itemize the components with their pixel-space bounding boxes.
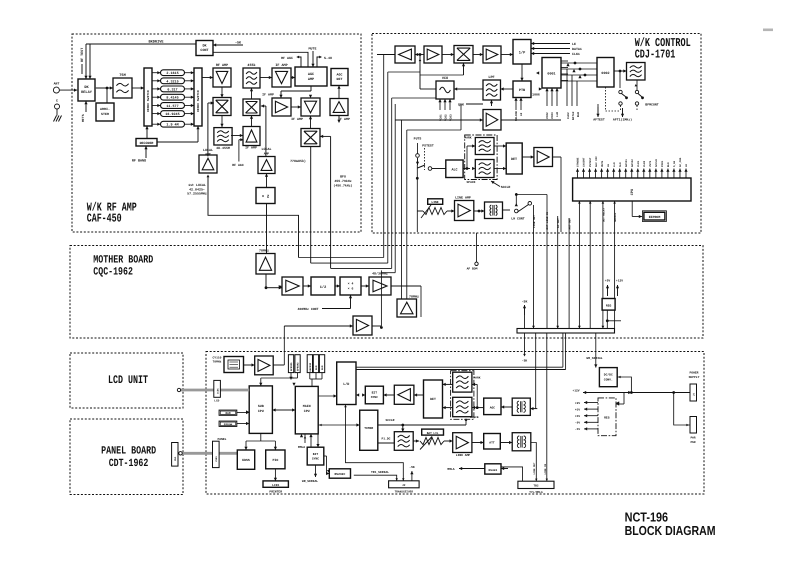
svg-text:PNR: PNR — [690, 441, 695, 444]
svg-text:LINE AMP: LINE AMP — [455, 196, 471, 200]
svg-text:DET: DET — [511, 157, 517, 162]
svg-text:S-40: S-40 — [324, 56, 332, 60]
svg-text:CAF-450: CAF-450 — [87, 212, 122, 226]
svg-text:E: E — [56, 100, 58, 103]
svg-text:455.79kHz: 455.79kHz — [334, 179, 351, 183]
svg-text:BIT: BIT — [372, 392, 378, 395]
svg-text:BLD: BLD — [667, 162, 670, 167]
svg-text:J101: J101 — [215, 456, 218, 462]
svg-text:BFMCONT: BFMCONT — [645, 103, 658, 107]
svg-text:MOTHER BOARD: MOTHER BOARD — [93, 255, 153, 267]
svg-text:MAIN: MAIN — [303, 404, 311, 408]
svg-text:1006: 1006 — [532, 93, 540, 97]
svg-text:RELAY: RELAY — [81, 90, 93, 95]
svg-text:VCO3: VCO3 — [551, 112, 554, 119]
svg-text:EPROM: EPROM — [224, 423, 233, 426]
svg-text:AGC: AGC — [337, 73, 343, 77]
svg-text:CLK2: CLK2 — [567, 112, 570, 119]
svg-text:AGC: AGC — [490, 407, 496, 410]
svg-text:AFTEST: AFTEST — [593, 118, 605, 122]
svg-text:CLK1: CLK1 — [637, 160, 640, 167]
svg-text:DET: DET — [430, 397, 436, 401]
svg-text:TRANSCEIVER: TRANSCEIVER — [395, 491, 414, 494]
svg-text:70MHz: 70MHz — [409, 295, 419, 299]
svg-text:TB2: TB2 — [533, 485, 538, 488]
svg-text:ATT: ATT — [489, 442, 495, 445]
svg-text:BLD: BLD — [577, 112, 580, 117]
svg-text:LE: LE — [607, 163, 610, 167]
svg-text:DATA1: DATA1 — [572, 47, 582, 51]
svg-text:EEPROM: EEPROM — [649, 215, 661, 219]
svg-text:+5V: +5V — [605, 280, 611, 283]
svg-text:DATA1: DATA1 — [625, 159, 628, 167]
svg-text:4.3215: 4.3215 — [166, 79, 178, 84]
svg-text:KDSS: KDSS — [242, 458, 250, 462]
svg-text:LPF: LPF — [488, 75, 494, 80]
svg-text:48/36MHz: 48/36MHz — [372, 272, 388, 276]
svg-text:75M: 75M — [119, 73, 125, 78]
svg-text:-5K: -5K — [409, 466, 415, 469]
svg-text:CPU: CPU — [304, 409, 310, 413]
svg-text:LWCONT: LWCONT — [583, 157, 586, 167]
svg-text:DATA2: DATA2 — [572, 111, 575, 120]
svg-text:ANT: ANT — [54, 82, 60, 86]
svg-text:+5V: +5V — [575, 408, 580, 411]
svg-text:AF BOM: AF BOM — [467, 268, 478, 271]
svg-text:-9V: -9V — [575, 422, 580, 425]
svg-text:REG: REG — [606, 305, 612, 308]
svg-text:48.455M: 48.455M — [216, 146, 230, 150]
svg-text:-5K: -5K — [235, 41, 242, 46]
svg-text:POWER: POWER — [689, 372, 698, 375]
svg-text:CDT-1962: CDT-1962 — [109, 458, 149, 470]
svg-text:RS422: RS422 — [489, 469, 498, 472]
svg-text:AGC: AGC — [308, 72, 314, 77]
svg-text:AF_CHG: AF_CHG — [679, 157, 682, 167]
svg-text:RF TEST: RF TEST — [80, 48, 85, 62]
svg-text:TYL/MMLA: TYL/MMLA — [529, 490, 543, 494]
svg-text:LCD UNIT: LCD UNIT — [108, 374, 148, 387]
svg-text:LINE AMP: LINE AMP — [456, 454, 471, 457]
svg-text:ALC: ALC — [451, 168, 457, 173]
svg-text:LCD1: LCD1 — [272, 484, 279, 487]
svg-text:SLD: SLD — [619, 162, 622, 167]
svg-text:PUTS: PUTS — [414, 137, 422, 141]
svg-text:LINE: LINE — [431, 201, 438, 204]
svg-text:LCD: LCD — [214, 400, 219, 403]
svg-text:CDJ-1701: CDJ-1701 — [635, 47, 676, 61]
svg-text:SCCLR: SCCLR — [655, 159, 658, 167]
svg-text:EEPROM: EEPROM — [309, 362, 312, 371]
svg-text:PSTEST: PSTEST — [589, 157, 592, 167]
svg-text:WR_SERIAL: WR_SERIAL — [586, 357, 602, 360]
svg-text:RAM: RAM — [321, 365, 324, 370]
svg-text:0001: 0001 — [547, 72, 555, 77]
svg-text:DECODER: DECODER — [140, 141, 154, 145]
svg-text:BAT LVL: BAT LVL — [427, 432, 439, 435]
svg-text:LOCAL: LOCAL — [262, 147, 272, 151]
svg-text:LH CONT: LH CONT — [511, 217, 524, 221]
svg-text:RF BAND: RF BAND — [132, 159, 146, 164]
svg-text:UNLOCK: UNLOCK — [515, 111, 518, 121]
svg-text:MARK: MARK — [464, 137, 471, 140]
svg-text:DATA2: DATA2 — [631, 159, 634, 167]
svg-text:CQC-1962: CQC-1962 — [93, 266, 133, 278]
svg-text:CONT: CONT — [200, 48, 208, 53]
svg-text:VCO: VCO — [442, 76, 448, 81]
svg-text:L/D: L/D — [343, 382, 349, 387]
svg-text:+9V: +9V — [575, 402, 580, 405]
svg-text:SCCLR: SCCLR — [385, 419, 394, 422]
svg-text:BFO: BFO — [340, 175, 346, 179]
svg-text:AGC OFF: AGC OFF — [595, 156, 598, 167]
svg-text:VSTS: VSTS — [649, 160, 652, 167]
svg-text:455k: 455k — [247, 63, 255, 68]
svg-text:LINE OUT: LINE OUT — [533, 215, 536, 228]
svg-text:× 6: × 6 — [348, 287, 354, 291]
svg-text:LE: LE — [572, 42, 576, 46]
svg-text:RF AGC: RF AGC — [232, 163, 244, 167]
svg-text:LE: LE — [520, 112, 523, 116]
svg-text:6.317: 6.317 — [167, 87, 177, 92]
svg-text:+12V: +12V — [572, 389, 579, 392]
svg-text:(456.7kHz): (456.7kHz) — [333, 184, 352, 188]
svg-text:SUPPLY: SUPPLY — [689, 376, 700, 379]
svg-text:MFTS: MFTS — [81, 114, 85, 122]
svg-text:LCDC: LCDC — [216, 388, 219, 394]
svg-text:1/P: 1/P — [519, 51, 525, 56]
svg-text:8.4145: 8.4145 — [166, 96, 178, 101]
svg-text:LLD: LLD — [556, 112, 559, 117]
svg-text:LK: LK — [685, 163, 688, 167]
svg-text:+5V: +5V — [575, 415, 580, 418]
svg-text:PANEL: PANEL — [217, 438, 226, 441]
svg-text:57.2555MHz: 57.2555MHz — [187, 192, 207, 196]
svg-text:P201: P201 — [661, 160, 664, 167]
svg-text:CLK1: CLK1 — [572, 52, 580, 56]
svg-text:J2: J2 — [402, 484, 406, 487]
svg-text:400MHz CONT: 400MHz CONT — [297, 307, 318, 311]
svg-text:ARRI-: ARRI- — [100, 107, 110, 111]
svg-text:RS232C: RS232C — [334, 473, 345, 476]
svg-text:MUTE: MUTE — [601, 160, 604, 167]
svg-text:770&85k): 770&85k) — [290, 159, 306, 163]
svg-text:S_AG: S_AG — [673, 160, 676, 167]
svg-text:LLD: LLD — [613, 162, 616, 167]
svg-text:TR1_SERIAL: TR1_SERIAL — [371, 471, 389, 474]
svg-text:1.9 4M: 1.9 4M — [166, 123, 178, 128]
svg-text:DIODE SWITCH: DIODE SWITCH — [147, 90, 150, 112]
svg-text:RF AGC: RF AGC — [281, 56, 293, 60]
svg-text:PIO: PIO — [273, 458, 279, 462]
svg-text:AFT1(1MHz): AFT1(1MHz) — [613, 118, 632, 122]
svg-text:BLOCK DIAGRAM: BLOCK DIAGRAM — [625, 523, 716, 538]
svg-text:CN1: CN1 — [174, 456, 177, 461]
svg-text:TIMER: TIMER — [364, 427, 373, 430]
svg-text:SCCLR: SCCLR — [501, 185, 511, 189]
svg-text:SYNC: SYNC — [371, 396, 378, 399]
svg-text:EXT LINE IN: EXT LINE IN — [546, 211, 549, 229]
svg-text:CLK2: CLK2 — [643, 160, 646, 167]
svg-text:IF AMP: IF AMP — [291, 117, 303, 121]
svg-text:BKDRIVE: BKDRIVE — [148, 40, 164, 45]
svg-text:PRINTER: PRINTER — [269, 491, 282, 494]
svg-text:LINE OUT: LINE OUT — [533, 462, 536, 475]
svg-text:70MHz: 70MHz — [212, 361, 221, 364]
svg-text:IF AMP: IF AMP — [245, 146, 257, 150]
svg-text:11.577: 11.577 — [166, 104, 178, 109]
svg-text:RAM: RAM — [315, 365, 318, 370]
svg-text:EPROM1: EPROM1 — [290, 362, 293, 371]
svg-text:-5K: -5K — [522, 360, 528, 363]
svg-text:BIT: BIT — [313, 453, 319, 456]
svg-text:DIODE SWITCH: DIODE SWITCH — [197, 90, 200, 112]
svg-text:SUB: SUB — [258, 404, 264, 408]
svg-text:P1_DC: P1_DC — [381, 438, 390, 441]
svg-text:-5V: -5V — [575, 428, 580, 431]
svg-text:RAM: RAM — [225, 412, 230, 415]
svg-text:SERIAL: SERIAL — [614, 212, 617, 222]
svg-text:DC/DC: DC/DC — [604, 373, 613, 377]
svg-text:AMP: AMP — [308, 77, 314, 82]
svg-text:MMLA: MMLA — [447, 468, 454, 471]
svg-text:WR_SERIAL: WR_SERIAL — [302, 480, 318, 483]
svg-text:VCO2: VCO2 — [546, 112, 549, 119]
svg-text:IF AMP: IF AMP — [275, 63, 287, 68]
svg-text:PANEL BOARD: PANEL BOARD — [101, 446, 156, 458]
svg-text:SPACE: SPACE — [470, 416, 479, 419]
svg-text:CONV.: CONV. — [604, 379, 613, 382]
svg-text:DET: DET — [337, 77, 343, 81]
svg-text:× 2: × 2 — [262, 195, 270, 200]
svg-text:× 4: × 4 — [348, 282, 354, 286]
svg-text:REG: REG — [604, 417, 610, 420]
svg-text:0002: 0002 — [601, 71, 609, 76]
svg-text:MARK: MARK — [474, 376, 481, 379]
svg-text:IF AMP: IF AMP — [262, 93, 274, 97]
svg-text:PWR: PWR — [690, 437, 695, 440]
svg-text:-5K: -5K — [522, 300, 528, 304]
svg-text:PTB: PTB — [519, 88, 526, 93]
svg-text:STROBE: STROBE — [577, 157, 580, 167]
svg-text:PSTEST: PSTEST — [422, 144, 434, 148]
svg-text:CPU: CPU — [258, 409, 264, 413]
svg-text:70MHz: 70MHz — [259, 249, 269, 253]
svg-text:1/2: 1/2 — [320, 285, 326, 290]
svg-text:MMLA: MMLA — [298, 446, 305, 449]
svg-text:RF AMP: RF AMP — [216, 63, 228, 68]
svg-text:EPROM2: EPROM2 — [297, 362, 300, 371]
svg-text:16.9245: 16.9245 — [165, 112, 179, 117]
svg-text:MUTE: MUTE — [309, 47, 317, 51]
svg-text:CY110: CY110 — [212, 357, 221, 360]
svg-text:SPACE: SPACE — [466, 181, 475, 184]
svg-text:2.1615: 2.1615 — [166, 71, 178, 76]
svg-text:+12V: +12V — [616, 280, 623, 283]
svg-text:SYNC: SYNC — [312, 458, 319, 461]
svg-text:CPU: CPU — [630, 189, 635, 195]
svg-text:OUT RELAY: OUT RELAY — [603, 208, 606, 222]
svg-text:AMP: AMP — [264, 152, 270, 155]
svg-text:STER: STER — [101, 112, 109, 116]
